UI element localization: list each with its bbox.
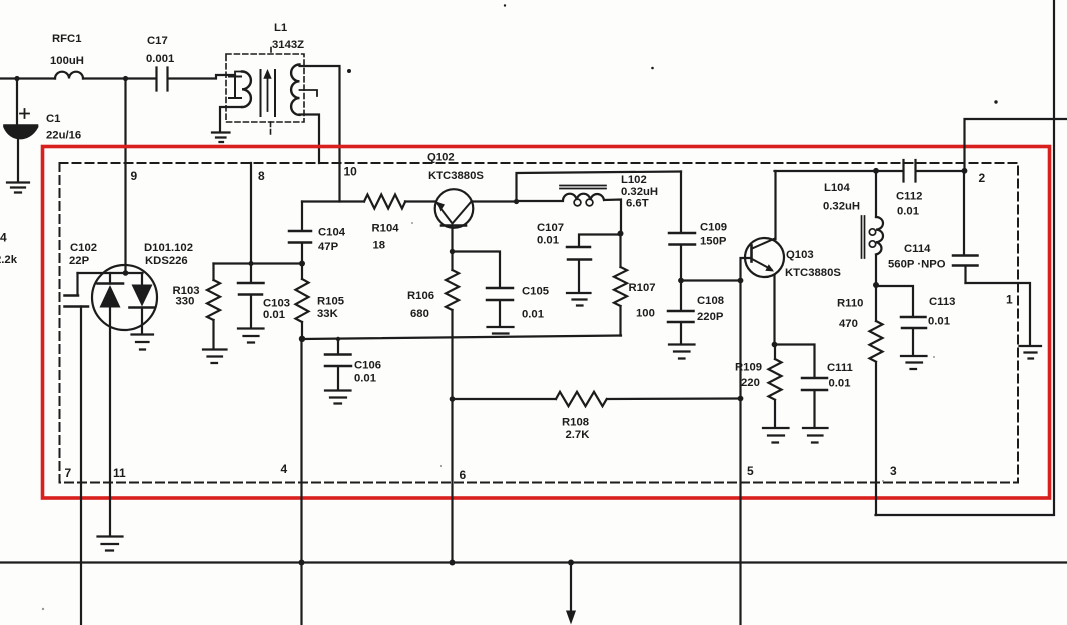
ground under C107 bbox=[567, 293, 591, 306]
ground under R109 bbox=[763, 428, 789, 443]
capacitor C103 bbox=[238, 283, 290, 327]
wire diode top node bbox=[78, 272, 143, 274]
svg-text:L1: L1 bbox=[274, 22, 287, 34]
svg-text:D101.102: D101.102 bbox=[144, 242, 193, 254]
wire pin 1 stub bbox=[966, 283, 1031, 345]
ground under D102 bbox=[132, 335, 154, 350]
svg-text:C113: C113 bbox=[929, 296, 955, 308]
pin 6 bbox=[460, 468, 467, 482]
svg-text:C102: C102 bbox=[70, 242, 97, 254]
wire L1 secondary tap bbox=[300, 90, 318, 96]
resistor R105 bbox=[296, 264, 345, 339]
wire pin 9 drop bbox=[124, 79, 126, 274]
svg-text:0.01: 0.01 bbox=[897, 206, 919, 218]
svg-text:3143Z: 3143Z bbox=[272, 39, 304, 51]
resistor R109 bbox=[735, 345, 782, 428]
node junction pin8 / bias row bbox=[249, 261, 254, 266]
svg-text:47P: 47P bbox=[318, 241, 339, 253]
svg-text:R105: R105 bbox=[317, 296, 344, 308]
node junction L102 / C107 / R107 bbox=[618, 231, 624, 237]
ground under R103 bbox=[203, 350, 227, 364]
inductor L102 bbox=[560, 174, 658, 234]
svg-text:R109: R109 bbox=[735, 362, 762, 374]
svg-text:C114: C114 bbox=[904, 243, 931, 255]
svg-text:RFC1: RFC1 bbox=[52, 33, 82, 45]
ground under C105 bbox=[488, 327, 514, 334]
svg-text:22P: 22P bbox=[69, 255, 90, 267]
ground under C103 bbox=[238, 329, 264, 343]
node junction Q102 emitter bbox=[450, 249, 455, 254]
svg-text:0.01: 0.01 bbox=[263, 309, 285, 321]
node speck bbox=[347, 69, 351, 73]
node junction R105 bottom / pin4 bbox=[299, 336, 305, 342]
pin 10 bbox=[344, 165, 358, 179]
ground pin 1 bbox=[1020, 346, 1042, 359]
inductor RFC1 bbox=[50, 33, 84, 79]
node junction pin9 wire / main wire bbox=[123, 76, 128, 81]
svg-text:330: 330 bbox=[176, 296, 195, 308]
pin 7 bbox=[65, 466, 72, 480]
transistor Q103 bbox=[745, 238, 841, 279]
node junction L104 bottom / R110 / C113 bbox=[873, 282, 879, 288]
pin 3 bbox=[890, 464, 897, 478]
svg-text:0.01: 0.01 bbox=[537, 235, 559, 247]
capacitor C104 bbox=[289, 202, 346, 264]
svg-text:C106: C106 bbox=[354, 360, 381, 372]
shield module dashed box bbox=[60, 163, 1019, 483]
wire pin 8 drop bbox=[250, 163, 252, 282]
core L1 with arrow bbox=[261, 69, 276, 116]
pin 1 bbox=[1006, 293, 1013, 307]
node junction C104/R105/bias row bbox=[299, 261, 305, 267]
node junction C109 / C108 / base wire bbox=[678, 278, 684, 284]
svg-text:0.01: 0.01 bbox=[354, 373, 376, 385]
wire collector to L102 bbox=[517, 200, 564, 202]
wire L1 secondary top to pin 10 bbox=[300, 66, 340, 202]
ground under C1 bbox=[7, 183, 29, 193]
wire pin 5 line bbox=[739, 281, 741, 625]
svg-text:33K: 33K bbox=[317, 308, 339, 320]
wire pin 11 line bbox=[109, 308, 111, 537]
ground under C108 bbox=[669, 345, 695, 359]
wire Q102 collector bbox=[473, 200, 516, 202]
capacitor C105 bbox=[453, 252, 550, 326]
diode D102 right element bbox=[130, 273, 155, 334]
transistor Q102 bbox=[427, 152, 484, 252]
resistor R107 bbox=[614, 234, 656, 336]
svg-text:C104: C104 bbox=[318, 227, 346, 239]
svg-text:2: 2 bbox=[979, 171, 986, 185]
wire outer right loop bbox=[876, 0, 1055, 515]
svg-text:150P: 150P bbox=[700, 236, 727, 248]
transformer L1 shield dashed box bbox=[226, 22, 304, 135]
capacitor C1 electrolytic bbox=[5, 79, 82, 182]
svg-text:C17: C17 bbox=[147, 35, 168, 47]
svg-text:8: 8 bbox=[258, 169, 265, 183]
wire base row y=201.5 bbox=[302, 200, 364, 202]
node junction L104 top bbox=[873, 168, 879, 174]
ground under L1 bbox=[212, 133, 230, 143]
svg-text:Q103: Q103 bbox=[786, 249, 814, 261]
svg-text:C111: C111 bbox=[827, 362, 853, 374]
capacitor C108 bbox=[668, 281, 724, 344]
ground under C113 bbox=[901, 356, 927, 369]
svg-text:0.32uH: 0.32uH bbox=[823, 201, 860, 213]
svg-text:7: 7 bbox=[65, 466, 72, 480]
wire L1 secondary bottom to pin 8 area bbox=[300, 115, 320, 164]
pin 8 bbox=[258, 169, 265, 183]
svg-text:560P ·NPO: 560P ·NPO bbox=[888, 259, 946, 271]
svg-text:0.001: 0.001 bbox=[146, 53, 174, 65]
diode D101 left element bbox=[98, 273, 124, 308]
node junction Q103 base / pin5 bbox=[738, 278, 744, 284]
node junction pin9 / diode top bbox=[123, 270, 129, 276]
svg-text:0.32uH: 0.32uH bbox=[621, 186, 658, 198]
node speck top right bbox=[994, 100, 997, 103]
transformer L1 primary winding bbox=[220, 72, 251, 132]
wire pin 4 line bbox=[300, 339, 302, 625]
svg-text:C109: C109 bbox=[700, 222, 727, 234]
svg-text:R104: R104 bbox=[372, 223, 400, 235]
resistor R4 partial labels at left edge bbox=[0, 231, 18, 267]
svg-text:680: 680 bbox=[410, 308, 429, 320]
wire main top rail y=78.5 bbox=[0, 75, 235, 79]
svg-text:2.2k: 2.2k bbox=[0, 254, 18, 266]
svg-text:C103: C103 bbox=[263, 298, 290, 310]
svg-text:C112: C112 bbox=[896, 191, 922, 203]
svg-text:100uH: 100uH bbox=[50, 55, 84, 67]
node junction Q103 emitter bbox=[772, 342, 778, 348]
capacitor C107 bbox=[537, 222, 621, 292]
svg-text:220: 220 bbox=[741, 377, 760, 389]
svg-text:9: 9 bbox=[131, 169, 138, 183]
capacitor C109 bbox=[669, 172, 727, 281]
svg-text:KDS226: KDS226 bbox=[145, 255, 188, 267]
scan speck bbox=[42, 222, 935, 610]
pin 9 bbox=[131, 169, 138, 183]
wire top right rail y=171 bbox=[775, 170, 965, 172]
svg-text:22u/16: 22u/16 bbox=[46, 130, 81, 142]
capacitor C112 bbox=[896, 160, 922, 218]
svg-text:0.01: 0.01 bbox=[522, 309, 544, 321]
svg-text:R110: R110 bbox=[837, 298, 863, 310]
wire Q103 collector riser bbox=[774, 171, 776, 239]
capacitor C114 bbox=[888, 171, 978, 283]
svg-text:1: 1 bbox=[1006, 293, 1013, 307]
node junction R108 left bbox=[450, 396, 456, 402]
svg-text:470: 470 bbox=[839, 318, 858, 330]
wire pin 6 line bbox=[451, 310, 453, 563]
node junction collector riser bbox=[514, 199, 519, 204]
pin 2 bbox=[979, 171, 986, 185]
ground under C111 bbox=[803, 428, 828, 443]
svg-text:220P: 220P bbox=[697, 311, 724, 323]
node junction bus arrow tap bbox=[568, 560, 574, 566]
svg-text:R107: R107 bbox=[629, 282, 656, 294]
resistor R106 bbox=[407, 252, 459, 321]
svg-text:100: 100 bbox=[636, 308, 655, 320]
svg-text:C1: C1 bbox=[46, 113, 60, 125]
svg-text:C107: C107 bbox=[537, 222, 564, 234]
svg-text:0.01: 0.01 bbox=[829, 378, 851, 390]
inductor L104 bbox=[823, 171, 883, 285]
svg-text:L104: L104 bbox=[824, 182, 850, 194]
wire pin 3 line bbox=[875, 362, 877, 515]
svg-text:4: 4 bbox=[281, 462, 288, 476]
resistor R103 bbox=[173, 264, 221, 348]
svg-text:KTC3880S: KTC3880S bbox=[428, 170, 484, 182]
pin 11 bbox=[113, 466, 126, 480]
transformer L1 secondary winding bbox=[291, 65, 299, 115]
capacitor C113 bbox=[876, 286, 955, 355]
node junction C1/main wire bbox=[14, 76, 19, 81]
resistor R104 bbox=[364, 195, 435, 252]
svg-text:3: 3 bbox=[890, 464, 897, 478]
node junction bus pin4 bbox=[299, 560, 305, 566]
svg-text:0.01: 0.01 bbox=[928, 316, 950, 328]
diode D101.102 KDS226 dual diode circle bbox=[92, 242, 193, 330]
shield module red highlight box bbox=[43, 147, 1050, 499]
node speck top bbox=[504, 4, 506, 6]
capacitor C102 bbox=[65, 242, 98, 307]
capacitor internal L1 bbox=[229, 77, 241, 99]
svg-text:R108: R108 bbox=[562, 417, 589, 429]
ground under pin 11 bbox=[98, 537, 123, 551]
node junction pin2 / C114 bbox=[962, 168, 968, 174]
svg-text:L102: L102 bbox=[621, 174, 647, 186]
wire pin 7 line bbox=[80, 307, 82, 625]
resistor R110 bbox=[837, 285, 883, 362]
svg-text:18: 18 bbox=[373, 240, 386, 252]
wire arrow drop bbox=[566, 563, 576, 625]
svg-text:10: 10 bbox=[344, 165, 358, 179]
svg-text:6.6T: 6.6T bbox=[626, 198, 649, 210]
pin 5 bbox=[747, 464, 754, 478]
wire Q103 base row bbox=[681, 258, 751, 281]
wire tank top feed bbox=[517, 172, 682, 202]
svg-text:KTC3880S: KTC3880S bbox=[785, 267, 841, 279]
wire pin 2 drop from top bbox=[965, 119, 1067, 171]
wire bias row y=263.5 bbox=[214, 262, 303, 264]
svg-text:11: 11 bbox=[113, 466, 126, 480]
svg-text:5: 5 bbox=[747, 464, 754, 478]
svg-text:R106: R106 bbox=[407, 290, 434, 302]
capacitor C106 bbox=[325, 337, 381, 390]
capacitor C111 bbox=[775, 345, 853, 427]
pin 4 bbox=[281, 462, 288, 476]
capacitor C17 bbox=[146, 35, 174, 91]
wire Q103 emitter drop bbox=[773, 276, 775, 345]
node junction R108 right bbox=[738, 396, 744, 402]
svg-text:2.7K: 2.7K bbox=[566, 429, 591, 441]
node junction bus pin6 bbox=[450, 560, 456, 566]
node speck mid bbox=[651, 67, 654, 70]
svg-text:4: 4 bbox=[0, 231, 7, 245]
wire ground bus bbox=[0, 561, 1067, 563]
ground under C106 bbox=[325, 391, 351, 404]
svg-text:C108: C108 bbox=[697, 295, 724, 307]
resistor R108 bbox=[453, 392, 741, 441]
svg-text:6: 6 bbox=[460, 468, 467, 482]
wire emitter bottom rail bbox=[302, 336, 621, 340]
svg-text:C105: C105 bbox=[522, 286, 549, 298]
svg-text:Q102: Q102 bbox=[427, 152, 455, 164]
